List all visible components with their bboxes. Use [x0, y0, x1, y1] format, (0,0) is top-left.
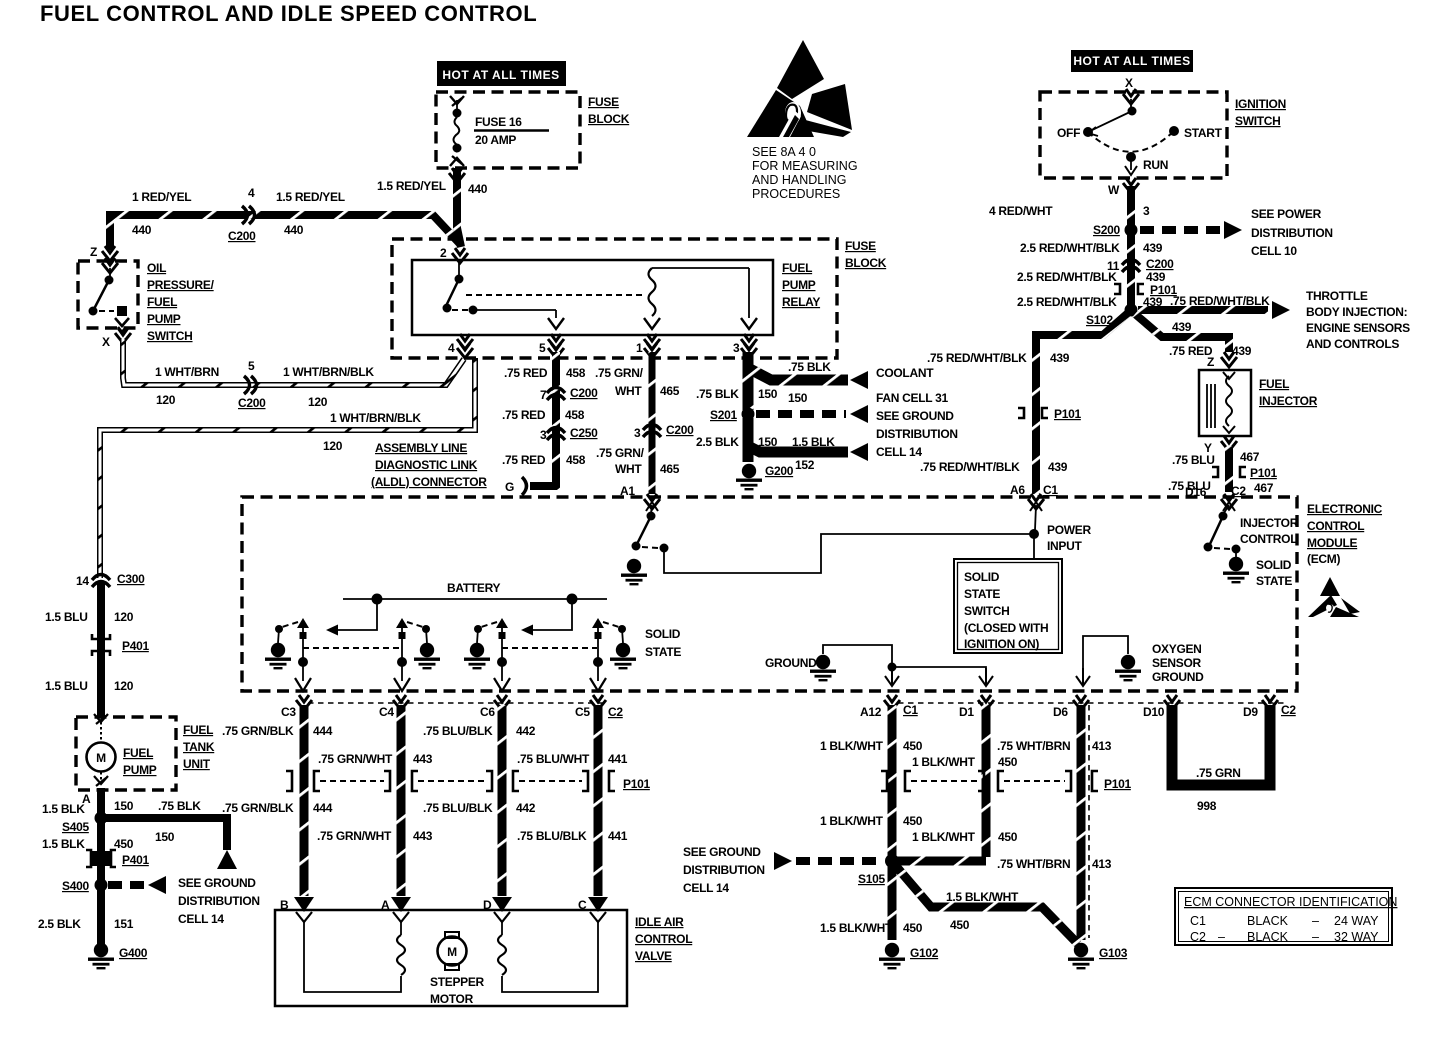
svg-text:SEE GROUND: SEE GROUND	[876, 409, 954, 423]
fuse block 1 dashed box	[436, 92, 580, 168]
connector P401 inline	[92, 634, 110, 656]
solid state switch box	[954, 559, 1062, 653]
svg-text:1 BLK/WHT: 1 BLK/WHT	[912, 755, 976, 769]
svg-text:PUMP: PUMP	[147, 312, 181, 326]
svg-text:120: 120	[114, 610, 134, 624]
node battery 1	[372, 594, 383, 605]
svg-text:OFF: OFF	[1057, 126, 1080, 140]
svg-text:120: 120	[323, 439, 343, 453]
svg-text:FUEL: FUEL	[782, 261, 812, 275]
terminal C4	[393, 695, 409, 710]
svg-text:2: 2	[440, 246, 447, 260]
splice S400	[95, 879, 108, 892]
svg-text:7: 7	[540, 388, 547, 402]
svg-text:467: 467	[1240, 450, 1260, 464]
wire 1 WHT/BRN/BLK ALDL run from relay pin4 down-left to C300 column	[100, 358, 475, 578]
wire .75 BLU 467 injector to ECM D16	[1225, 446, 1233, 492]
svg-text:START: START	[1184, 126, 1223, 140]
connector P101 pair on A6 wire	[1018, 408, 1048, 418]
svg-text:32 WAY: 32 WAY	[1334, 930, 1379, 944]
svg-text:G102: G102	[910, 946, 939, 960]
svg-text:3: 3	[733, 341, 740, 355]
svg-text:P101: P101	[1104, 777, 1131, 791]
svg-text:C4: C4	[379, 705, 394, 719]
svg-text:2.5 RED/WHT/BLK: 2.5 RED/WHT/BLK	[1017, 270, 1117, 284]
svg-text:PUMP: PUMP	[123, 763, 157, 777]
svg-text:SWITCH: SWITCH	[1235, 114, 1281, 128]
svg-text:150: 150	[114, 799, 134, 813]
svg-text:SEE GROUND: SEE GROUND	[178, 876, 256, 890]
svg-text:4 RED/WHT: 4 RED/WHT	[989, 204, 1053, 218]
svg-text:D6: D6	[1053, 705, 1068, 719]
svg-text:465: 465	[660, 462, 680, 476]
svg-text:998: 998	[1197, 799, 1217, 813]
wire C5 to IAC C	[594, 705, 603, 896]
svg-text:2.5 BLK: 2.5 BLK	[38, 917, 81, 931]
svg-text:450: 450	[903, 814, 923, 828]
svg-text:465: 465	[660, 384, 680, 398]
pin row dashed link left	[308, 702, 608, 704]
svg-text:HOT AT ALL TIMES: HOT AT ALL TIMES	[1073, 54, 1190, 68]
wire .75 RED/WHT/BLK to throttle body arrow	[1138, 306, 1268, 314]
svg-text:442: 442	[516, 801, 536, 815]
wire .75 RED 458 from pin 5 to ALDL G	[530, 352, 556, 486]
fuse block 2 dashed box around relay	[392, 239, 837, 358]
terminal C3	[296, 695, 312, 710]
terminal pin 3	[741, 334, 757, 349]
wire .75 BLK branch from S405	[105, 818, 227, 850]
arrow into A12	[885, 668, 899, 686]
svg-text:C1: C1	[903, 703, 918, 717]
idle air control valve box	[275, 910, 627, 1006]
ground under A1 switch	[621, 559, 647, 586]
svg-text:2.5 BLK: 2.5 BLK	[696, 435, 739, 449]
terminal out of fuel pump	[94, 772, 108, 786]
connector P101 pair	[1114, 284, 1144, 294]
svg-text:S105: S105	[858, 872, 885, 886]
dashed wire S400 to ground distribution	[108, 881, 144, 889]
splice S201	[742, 408, 755, 421]
svg-text:.75 RED: .75 RED	[502, 408, 546, 422]
wire battery node1 to switch pair 1	[330, 599, 377, 630]
wire .75 GRN/WHT 465 from pin 1 to ECM A1	[649, 352, 656, 494]
wire pin3 down to S201	[743, 364, 754, 410]
ALDL G terminal	[522, 477, 527, 495]
arrow into D1	[979, 668, 993, 686]
svg-text:DISTRIBUTION: DISTRIBUTION	[683, 863, 765, 877]
svg-text:1.5 BLK: 1.5 BLK	[792, 435, 835, 449]
dashed wire S201 to ground distribution arrow	[756, 410, 846, 418]
IAC coil 2	[498, 935, 506, 975]
svg-text:CONTROL: CONTROL	[635, 932, 692, 946]
svg-text:.75 GRN/: .75 GRN/	[596, 446, 645, 460]
svg-text:CONTROL: CONTROL	[1307, 519, 1364, 533]
svg-text:DISTRIBUTION: DISTRIBUTION	[876, 427, 958, 441]
svg-text:450: 450	[998, 755, 1018, 769]
connector P101 row left: brackets and dashes	[286, 771, 615, 791]
svg-text:SWITCH: SWITCH	[147, 329, 193, 343]
svg-text:467: 467	[1254, 481, 1274, 495]
svg-text:1 WHT/BRN/BLK: 1 WHT/BRN/BLK	[283, 365, 374, 379]
arrow to coolant fan	[850, 371, 868, 389]
svg-text:M: M	[96, 751, 106, 765]
fuel injector box	[1199, 370, 1251, 436]
wire S201 to G200 and CELL14 arrow	[748, 418, 848, 452]
svg-text:1 WHT/BRN/BLK: 1 WHT/BRN/BLK	[330, 411, 421, 425]
terminal D16 on ECM	[1221, 494, 1237, 509]
svg-text:440: 440	[468, 182, 488, 196]
terminal D9	[1262, 695, 1278, 710]
svg-text:ENGINE SENSORS: ENGINE SENSORS	[1306, 321, 1410, 335]
svg-text:AND CONTROLS: AND CONTROLS	[1306, 337, 1399, 351]
svg-text:SENSOR: SENSOR	[1152, 656, 1202, 670]
svg-text:413: 413	[1092, 857, 1112, 871]
svg-text:X: X	[102, 335, 110, 349]
svg-text:150: 150	[788, 391, 808, 405]
svg-text:3: 3	[540, 428, 547, 442]
ground G200	[736, 464, 762, 491]
svg-text:FUEL: FUEL	[183, 723, 213, 737]
svg-text:458: 458	[566, 366, 586, 380]
IAC internal wiring left loop	[304, 922, 401, 992]
svg-text:THROTTLE: THROTTLE	[1306, 289, 1368, 303]
svg-text:.75 GRN/BLK: .75 GRN/BLK	[222, 724, 294, 738]
svg-text:SOLID: SOLID	[1256, 558, 1292, 572]
svg-text:PRESSURE/: PRESSURE/	[147, 278, 215, 292]
IAC terminals on top edge	[296, 912, 312, 922]
svg-text:.75 BLU: .75 BLU	[1172, 453, 1215, 467]
svg-text:1.5 BLU: 1.5 BLU	[45, 610, 88, 624]
svg-text:151: 151	[114, 917, 134, 931]
terminal Z at oil pressure switch	[102, 246, 118, 261]
svg-text:HOT AT ALL TIMES: HOT AT ALL TIMES	[442, 68, 559, 82]
dashed wire from see ground distribution into S105	[796, 857, 884, 865]
svg-text:DISTRIBUTION: DISTRIBUTION	[1251, 226, 1333, 240]
ground G400	[88, 943, 114, 970]
svg-text:INJECTOR: INJECTOR	[1240, 516, 1299, 530]
svg-text:IGNITION ON): IGNITION ON)	[964, 637, 1039, 651]
IAC internal wiring right loop	[502, 922, 598, 992]
svg-text:120: 120	[308, 395, 328, 409]
svg-text:.75 RED/WHT/BLK: .75 RED/WHT/BLK	[920, 460, 1020, 474]
terminal A12	[884, 695, 900, 710]
svg-text:C200: C200	[1146, 257, 1174, 271]
splice S200	[1125, 224, 1138, 237]
svg-text:.75 WHT/BRN: .75 WHT/BRN	[997, 857, 1070, 871]
svg-text:G200: G200	[765, 464, 794, 478]
svg-text:P401: P401	[122, 853, 149, 867]
terminal C6	[494, 695, 510, 710]
svg-text:1.5 BLU: 1.5 BLU	[45, 679, 88, 693]
svg-text:20 AMP: 20 AMP	[475, 133, 516, 147]
svg-text:458: 458	[565, 408, 585, 422]
svg-text:S201: S201	[710, 408, 737, 422]
svg-text:P101: P101	[1054, 407, 1081, 421]
svg-text:439: 439	[1172, 320, 1192, 334]
svg-text:5: 5	[539, 341, 546, 355]
svg-text:.75 GRN: .75 GRN	[1196, 766, 1241, 780]
svg-text:Z: Z	[1207, 355, 1214, 369]
svg-text:RELAY: RELAY	[782, 295, 820, 309]
svg-text:G400: G400	[119, 946, 148, 960]
HOT AT ALL TIMES banner 2	[1071, 50, 1193, 72]
svg-text:–: –	[1312, 930, 1319, 944]
svg-text:P401: P401	[122, 639, 149, 653]
solid state driver Q2 for C4	[394, 618, 440, 691]
wire C6 to IAC D	[498, 705, 507, 896]
svg-text:FUSE: FUSE	[588, 95, 619, 109]
svg-text:G: G	[505, 480, 514, 494]
svg-text:SEE 8A 4 0: SEE 8A 4 0	[752, 145, 816, 159]
svg-text:FAN CELL 31: FAN CELL 31	[876, 391, 948, 405]
svg-text:450: 450	[903, 921, 923, 935]
svg-text:GROUND: GROUND	[1152, 670, 1204, 684]
terminal A6 on ECM	[1028, 494, 1044, 509]
dashed thin line beside D6	[1088, 705, 1090, 938]
svg-text:3: 3	[1143, 204, 1150, 218]
wire 1.5 BLU C300 to fuel tank	[97, 583, 105, 718]
gate dashed link pair 2	[502, 647, 597, 649]
svg-text:.75 WHT/BRN: .75 WHT/BRN	[997, 739, 1070, 753]
arrow into D6	[1076, 668, 1090, 686]
wire D10 D9 loop .75 GRN 998	[1172, 705, 1270, 785]
svg-text:444: 444	[313, 801, 333, 815]
svg-text:150: 150	[155, 830, 175, 844]
svg-text:BLACK: BLACK	[1247, 914, 1289, 928]
svg-text:4: 4	[248, 186, 255, 200]
svg-text:FUEL: FUEL	[147, 295, 177, 309]
wire A1 contact to power input node	[664, 534, 1030, 573]
svg-text:BLACK: BLACK	[1247, 930, 1289, 944]
splice S405	[95, 812, 108, 825]
svg-text:OIL: OIL	[147, 261, 166, 275]
wire C4 to IAC A	[397, 705, 406, 896]
connector C200 inline on RED/YEL wire	[242, 206, 255, 224]
svg-text:441: 441	[608, 829, 628, 843]
triangle connector end	[217, 850, 237, 869]
svg-text:PROCEDURES: PROCEDURES	[752, 187, 840, 201]
svg-text:AND HANDLING: AND HANDLING	[752, 173, 846, 187]
svg-text:P101: P101	[1250, 466, 1277, 480]
svg-text:442: 442	[516, 724, 536, 738]
svg-text:444: 444	[313, 724, 333, 738]
oil pressure switch box	[78, 261, 138, 328]
wire 1.5 BLK fuel pump to G400	[97, 788, 105, 944]
svg-text:W: W	[1108, 183, 1120, 197]
svg-text:458: 458	[566, 453, 586, 467]
wire S102 left branch down to ECM A6	[1036, 313, 1128, 494]
ground symbol ECM	[810, 655, 836, 682]
power input node dot	[1029, 529, 1039, 539]
svg-text:D10: D10	[1143, 705, 1165, 719]
svg-text:S405: S405	[62, 820, 89, 834]
svg-text:MODULE: MODULE	[1307, 536, 1357, 550]
svg-text:450: 450	[903, 739, 923, 753]
terminal Z injector	[1221, 352, 1237, 367]
relay switch contacts	[443, 262, 565, 329]
svg-text:(ALDL) CONNECTOR: (ALDL) CONNECTOR	[371, 475, 487, 489]
svg-text:120: 120	[156, 393, 176, 407]
svg-text:450: 450	[950, 918, 970, 932]
svg-text:BATTERY: BATTERY	[447, 581, 501, 595]
svg-text:CELL 14: CELL 14	[876, 445, 922, 459]
svg-text:STATE: STATE	[964, 587, 1000, 601]
svg-text:FUEL CONTROL AND IDLE SPEED CO: FUEL CONTROL AND IDLE SPEED CONTROL	[40, 1, 537, 26]
svg-text:152: 152	[795, 458, 815, 472]
ignition switch dashed box	[1040, 92, 1227, 178]
svg-text:CELL 14: CELL 14	[683, 881, 729, 895]
svg-text:C2: C2	[1190, 930, 1206, 944]
wire 1 WHT/BRN run from X to C200 to relay pin 4	[123, 338, 464, 385]
relay coil	[644, 268, 757, 329]
svg-text:.75 GRN/WHT: .75 GRN/WHT	[318, 752, 393, 766]
connector 11 C200	[1122, 260, 1140, 273]
svg-text:CONTROL: CONTROL	[1240, 532, 1297, 546]
svg-text:C5: C5	[575, 705, 590, 719]
wire D1 down to S105 junction wire	[982, 705, 991, 857]
svg-text:C2: C2	[1281, 703, 1296, 717]
ECM connector identification table	[1175, 888, 1397, 945]
ESD warning symbol	[747, 40, 852, 137]
svg-text:FUEL: FUEL	[1259, 377, 1289, 391]
svg-text:450: 450	[114, 837, 134, 851]
dashed wire S200 to power distribution	[1140, 226, 1222, 234]
solid state driver Q4 for C5	[590, 618, 636, 691]
svg-text:.75 BLK: .75 BLK	[788, 360, 831, 374]
svg-text:24 WAY: 24 WAY	[1334, 914, 1379, 928]
pin row dashed link right	[898, 702, 1286, 704]
svg-text:INPUT: INPUT	[1047, 539, 1082, 553]
gate dashed link pair 1	[303, 647, 400, 649]
fuse 16 symbol	[450, 96, 464, 166]
svg-text:GROUND: GROUND	[765, 656, 817, 670]
terminal X below oil switch	[115, 328, 131, 343]
svg-text:150: 150	[758, 435, 778, 449]
svg-text:C200: C200	[570, 386, 598, 400]
svg-text:ASSEMBLY LINE: ASSEMBLY LINE	[375, 441, 467, 455]
svg-text:C3: C3	[281, 705, 296, 719]
svg-text:1 RED/YEL: 1 RED/YEL	[132, 190, 191, 204]
svg-text:1 BLK/WHT: 1 BLK/WHT	[912, 830, 976, 844]
terminal D6	[1073, 695, 1089, 710]
svg-text:1 BLK/WHT: 1 BLK/WHT	[820, 739, 884, 753]
solid state driver Q1 for C3	[265, 618, 311, 691]
svg-text:INJECTOR: INJECTOR	[1259, 394, 1318, 408]
svg-text:.75 BLU/BLK: .75 BLU/BLK	[423, 724, 493, 738]
fuel injector internals	[1207, 372, 1235, 433]
svg-text:.75 RED: .75 RED	[504, 366, 548, 380]
svg-text:IDLE AIR: IDLE AIR	[635, 915, 684, 929]
svg-text:441: 441	[608, 752, 628, 766]
wire power node to solid state switch box	[1033, 538, 1035, 559]
terminal pin 4	[457, 334, 473, 349]
svg-text:S200: S200	[1093, 223, 1120, 237]
svg-text:1 WHT/BRN: 1 WHT/BRN	[155, 365, 219, 379]
terminal W	[1123, 178, 1139, 193]
wire C3 to IAC B	[300, 705, 309, 896]
connector 7 C200	[547, 388, 565, 401]
svg-text:150: 150	[758, 387, 778, 401]
wire S105 diagonal to G103	[895, 865, 1078, 944]
svg-text:SEE GROUND: SEE GROUND	[683, 845, 761, 859]
svg-text:C200: C200	[228, 229, 256, 243]
terminal D1	[978, 695, 994, 710]
ECM dashed box	[242, 497, 1297, 691]
wire 1 RED/YEL circuit 440 horizontal run	[110, 215, 461, 250]
splice S105	[885, 854, 899, 868]
oil pressure switch contacts	[89, 258, 130, 332]
svg-text:1.5 RED/YEL: 1.5 RED/YEL	[276, 190, 345, 204]
svg-text:439: 439	[1232, 344, 1252, 358]
fuel pump relay inner box	[412, 260, 773, 335]
fuel tank unit dashed box	[76, 717, 176, 790]
ground symbol oxygen sensor	[1115, 655, 1141, 682]
svg-text:14: 14	[76, 574, 89, 588]
svg-text:BLOCK: BLOCK	[588, 112, 630, 126]
svg-text:1.5 RED/YEL: 1.5 RED/YEL	[377, 179, 446, 193]
svg-text:439: 439	[1146, 270, 1166, 284]
relay link dashed line	[466, 294, 644, 296]
svg-text:Z: Z	[90, 245, 97, 259]
fuel pump motor circle	[87, 743, 116, 772]
svg-text:C1: C1	[1043, 483, 1058, 497]
svg-text:MOTOR: MOTOR	[430, 992, 474, 1006]
svg-text:1 BLK/WHT: 1 BLK/WHT	[820, 814, 884, 828]
svg-text:VALVE: VALVE	[635, 949, 672, 963]
svg-text:TANK: TANK	[183, 740, 215, 754]
HOT AT ALL TIMES banner 1	[437, 61, 566, 86]
IAC coil 1	[397, 935, 405, 975]
svg-text:FOR MEASURING: FOR MEASURING	[752, 159, 858, 173]
ground G103	[1068, 943, 1094, 970]
splice S102	[1125, 304, 1138, 317]
wire .75 BLK 150 from pin 3 to coolant fan arrow	[748, 352, 848, 380]
svg-text:C200: C200	[238, 396, 266, 410]
svg-text:BODY INJECTION:: BODY INJECTION:	[1306, 305, 1407, 319]
ignition switch contacts	[1083, 89, 1179, 175]
svg-text:2.5 RED/WHT/BLK: 2.5 RED/WHT/BLK	[1020, 241, 1120, 255]
solid state driver Q3 for C6	[464, 618, 510, 691]
svg-text:X: X	[1125, 76, 1133, 90]
svg-text:RUN: RUN	[1143, 158, 1168, 172]
svg-text:.75 GRN/WHT: .75 GRN/WHT	[317, 829, 392, 843]
arrows into IAC valve	[294, 897, 314, 912]
svg-text:UNIT: UNIT	[183, 757, 211, 771]
connector 3 C200 on 465 wire	[643, 425, 661, 438]
svg-text:SOLID: SOLID	[964, 570, 1000, 584]
svg-text:–: –	[1218, 930, 1225, 944]
svg-text:439: 439	[1048, 460, 1068, 474]
wire oxygen ground to D6	[1083, 636, 1128, 670]
svg-text:S400: S400	[62, 879, 89, 893]
svg-text:FUEL: FUEL	[123, 746, 153, 760]
wire battery node2 to switch pair 2	[525, 599, 572, 630]
connector C300	[92, 575, 110, 588]
svg-text:D9: D9	[1243, 705, 1258, 719]
connector P101 row right	[881, 771, 1098, 791]
connector 3 C250	[547, 428, 565, 441]
svg-text:.75 GRN/: .75 GRN/	[595, 366, 644, 380]
svg-text:443: 443	[413, 829, 433, 843]
wire ground to A12 and D1	[823, 645, 892, 664]
svg-text:1.5 BLK: 1.5 BLK	[42, 802, 85, 816]
svg-text:.75 GRN/BLK: .75 GRN/BLK	[222, 801, 294, 815]
svg-text:C300: C300	[117, 572, 145, 586]
svg-text:.75 BLU/WHT: .75 BLU/WHT	[517, 752, 590, 766]
wire 2.5 RED/WHT/BLK S200 to S102	[1127, 234, 1135, 306]
svg-text:POWER: POWER	[1047, 523, 1091, 537]
svg-text:(ECM): (ECM)	[1307, 552, 1340, 566]
